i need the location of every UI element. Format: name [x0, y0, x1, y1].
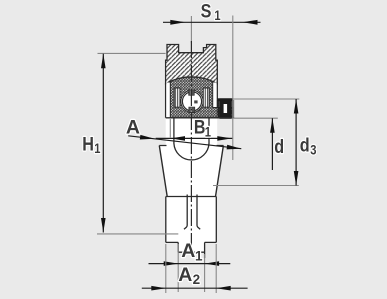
- centerline: [190, 41, 192, 246]
- dimension A leader: [126, 117, 241, 150]
- bottom block and boss outline: [166, 197, 217, 259]
- centerline extension above part (gray): [190, 16, 192, 43]
- dimension d: [233, 118, 284, 170]
- svg-text:d: d: [300, 134, 310, 156]
- left seal: [174, 88, 180, 107]
- bore wall edge left: [173, 118, 175, 144]
- svg-text:1: 1: [205, 125, 211, 140]
- dimension d3: [213, 99, 317, 186]
- set screw (grub screw) with thread and slot: [217, 98, 233, 119]
- dimension A1: [149, 240, 231, 292]
- white pocket behind bearing insert: [166, 83, 216, 118]
- white front face silhouette of housing lower part: [159, 118, 223, 253]
- right seal: [203, 88, 209, 107]
- svg-text:A: A: [178, 264, 192, 286]
- slot in block: [184, 195, 200, 230]
- cage rivet dot: [194, 100, 197, 103]
- stem shoulder stubs: [159, 145, 223, 147]
- svg-text:B: B: [194, 116, 206, 138]
- cage segment top: [189, 90, 195, 96]
- ball: [182, 92, 201, 111]
- line across bottom of rings / top of front face: [166, 117, 233, 119]
- svg-text:A: A: [126, 117, 140, 139]
- bore wall edge right: [208, 118, 210, 144]
- cage segment bottom: [189, 107, 195, 112]
- svg-text:1: 1: [195, 248, 203, 263]
- svg-text:1: 1: [214, 8, 220, 23]
- svg-text:H: H: [82, 133, 94, 155]
- dimension A2: [142, 244, 248, 293]
- svg-text:3: 3: [310, 142, 316, 157]
- bearing insert envelope (cross hatch): [170, 77, 233, 118]
- dimension B1: [156, 116, 233, 141]
- housing body side edges below arc: [166, 83, 218, 118]
- svg-text:d: d: [274, 136, 284, 158]
- housing top block hatched: ears + body minus bearing pocket: [166, 45, 218, 84]
- bore circle lower half (dome arc): [174, 143, 209, 160]
- svg-text:1: 1: [94, 141, 100, 156]
- stem sloped edges: [159, 146, 223, 197]
- svg-text:A: A: [181, 240, 195, 262]
- dimension H1: [82, 53, 178, 234]
- svg-text:S: S: [201, 0, 212, 22]
- svg-text:2: 2: [193, 272, 201, 287]
- raceway clearance halo around ball: [181, 90, 203, 112]
- dimension S1: [163, 0, 261, 160]
